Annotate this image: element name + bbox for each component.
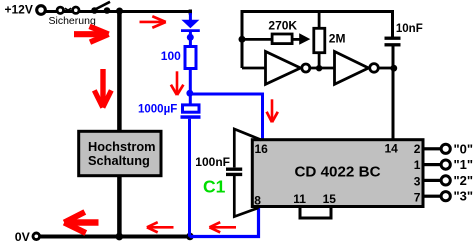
svg-text:14: 14 — [385, 142, 399, 156]
wire pin14 node down to chip and up to 10nF — [392, 46, 395, 141]
wire to 270K — [242, 38, 272, 41]
svg-text:"1": "1" — [454, 157, 474, 172]
svg-text:C1: C1 — [203, 176, 226, 196]
wire oscillator feedback loop — [242, 12, 393, 69]
svg-text:11: 11 — [293, 192, 306, 206]
svg-text:15: 15 — [323, 192, 337, 206]
svg-text:270K: 270K — [268, 18, 297, 32]
current arrow thin left (blue return) — [209, 222, 236, 232]
switch S1 — [91, 2, 110, 14]
current arrow thin left (0V rail middle) — [147, 222, 174, 232]
junction 0V rail / Hochstrom branch — [116, 233, 124, 241]
junction below diode — [187, 34, 194, 41]
svg-text:"0": "0" — [454, 141, 474, 156]
svg-text:+12V: +12V — [5, 2, 33, 16]
wire 0V rail — [41, 235, 191, 239]
wire U1B output to pin 14 node — [378, 67, 393, 70]
wire pins 11-15 strap — [300, 207, 331, 219]
resistor 270K — [272, 34, 292, 44]
wire resistor to capacitor node — [189, 70, 192, 105]
junction pin14 node — [390, 65, 397, 72]
svg-text:"2": "2" — [454, 173, 474, 188]
svg-text:2M: 2M — [329, 32, 346, 46]
inverter U1A — [266, 52, 310, 85]
junction +12V rail / left branch — [116, 8, 123, 15]
svg-text:3: 3 — [414, 174, 421, 188]
wire stub from +12V rail to diode — [189, 10, 192, 15]
svg-text:Sicherung: Sicherung — [49, 15, 96, 27]
capacitor C1 100nF bracket to pins 16 and 8 — [226, 129, 262, 217]
output terminal "2" — [424, 173, 473, 188]
node 0V terminal — [15, 230, 40, 244]
node +12V terminal — [5, 2, 46, 16]
current arrow thin down (to 1000µF) — [171, 71, 184, 95]
output terminal "0" — [424, 141, 473, 156]
junction 0V rail / blue return — [186, 233, 194, 241]
svg-text:16: 16 — [255, 142, 269, 156]
svg-text:"3": "3" — [454, 189, 474, 204]
current arrow thick right (top left) — [74, 26, 109, 42]
svg-text:100nF: 100nF — [195, 155, 230, 169]
junction 2M bottom / inverter wire — [316, 65, 322, 71]
svg-text:0V: 0V — [15, 230, 31, 244]
capacitor 1000µF — [181, 105, 201, 237]
wiper arrow into 2M — [293, 33, 310, 45]
junction supply node — [186, 90, 193, 97]
inverter U1B — [335, 52, 379, 85]
svg-text:1: 1 — [414, 158, 421, 172]
resistor 100 — [185, 47, 196, 69]
current arrow thick left (0V rail) — [64, 212, 98, 233]
potentiometer 2M — [314, 12, 325, 69]
wire blue bottom return — [190, 208, 259, 237]
output terminal "1" — [424, 157, 473, 172]
current arrow thin right (to diode) — [140, 16, 166, 27]
svg-text:Hochstrom: Hochstrom — [88, 139, 156, 154]
capacitor 10nF — [385, 38, 401, 45]
current arrow thick down (left branch) — [94, 69, 111, 108]
wire U1A out to U1B in — [310, 67, 335, 70]
block Hochstrom Schaltung — [79, 131, 161, 175]
svg-text:10nF: 10nF — [396, 23, 423, 35]
wire left branch vertical — [117, 11, 122, 131]
svg-text:8: 8 — [254, 193, 261, 207]
svg-text:2: 2 — [414, 142, 421, 156]
fuse Sicherung (connector pair) — [49, 7, 96, 27]
svg-text:100: 100 — [161, 49, 181, 63]
diode D1 — [181, 13, 200, 46]
current arrow thin down (to pin 16) — [267, 99, 278, 122]
wire +12V rail top — [46, 10, 192, 13]
wire inverter input — [242, 67, 266, 70]
wire blue supply horizontal and down to pin 16 — [190, 94, 263, 141]
svg-text:Schaltung: Schaltung — [88, 153, 150, 168]
svg-text:1000µF: 1000µF — [138, 104, 177, 116]
IC U2 CD4022BC — [252, 140, 423, 207]
wire Hochstrom to 0V rail — [117, 176, 122, 237]
svg-text:7: 7 — [414, 191, 421, 205]
junction feedback / 270K — [239, 36, 246, 43]
svg-text:CD 4022 BC: CD 4022 BC — [294, 164, 380, 181]
output terminal "3" — [424, 189, 473, 204]
